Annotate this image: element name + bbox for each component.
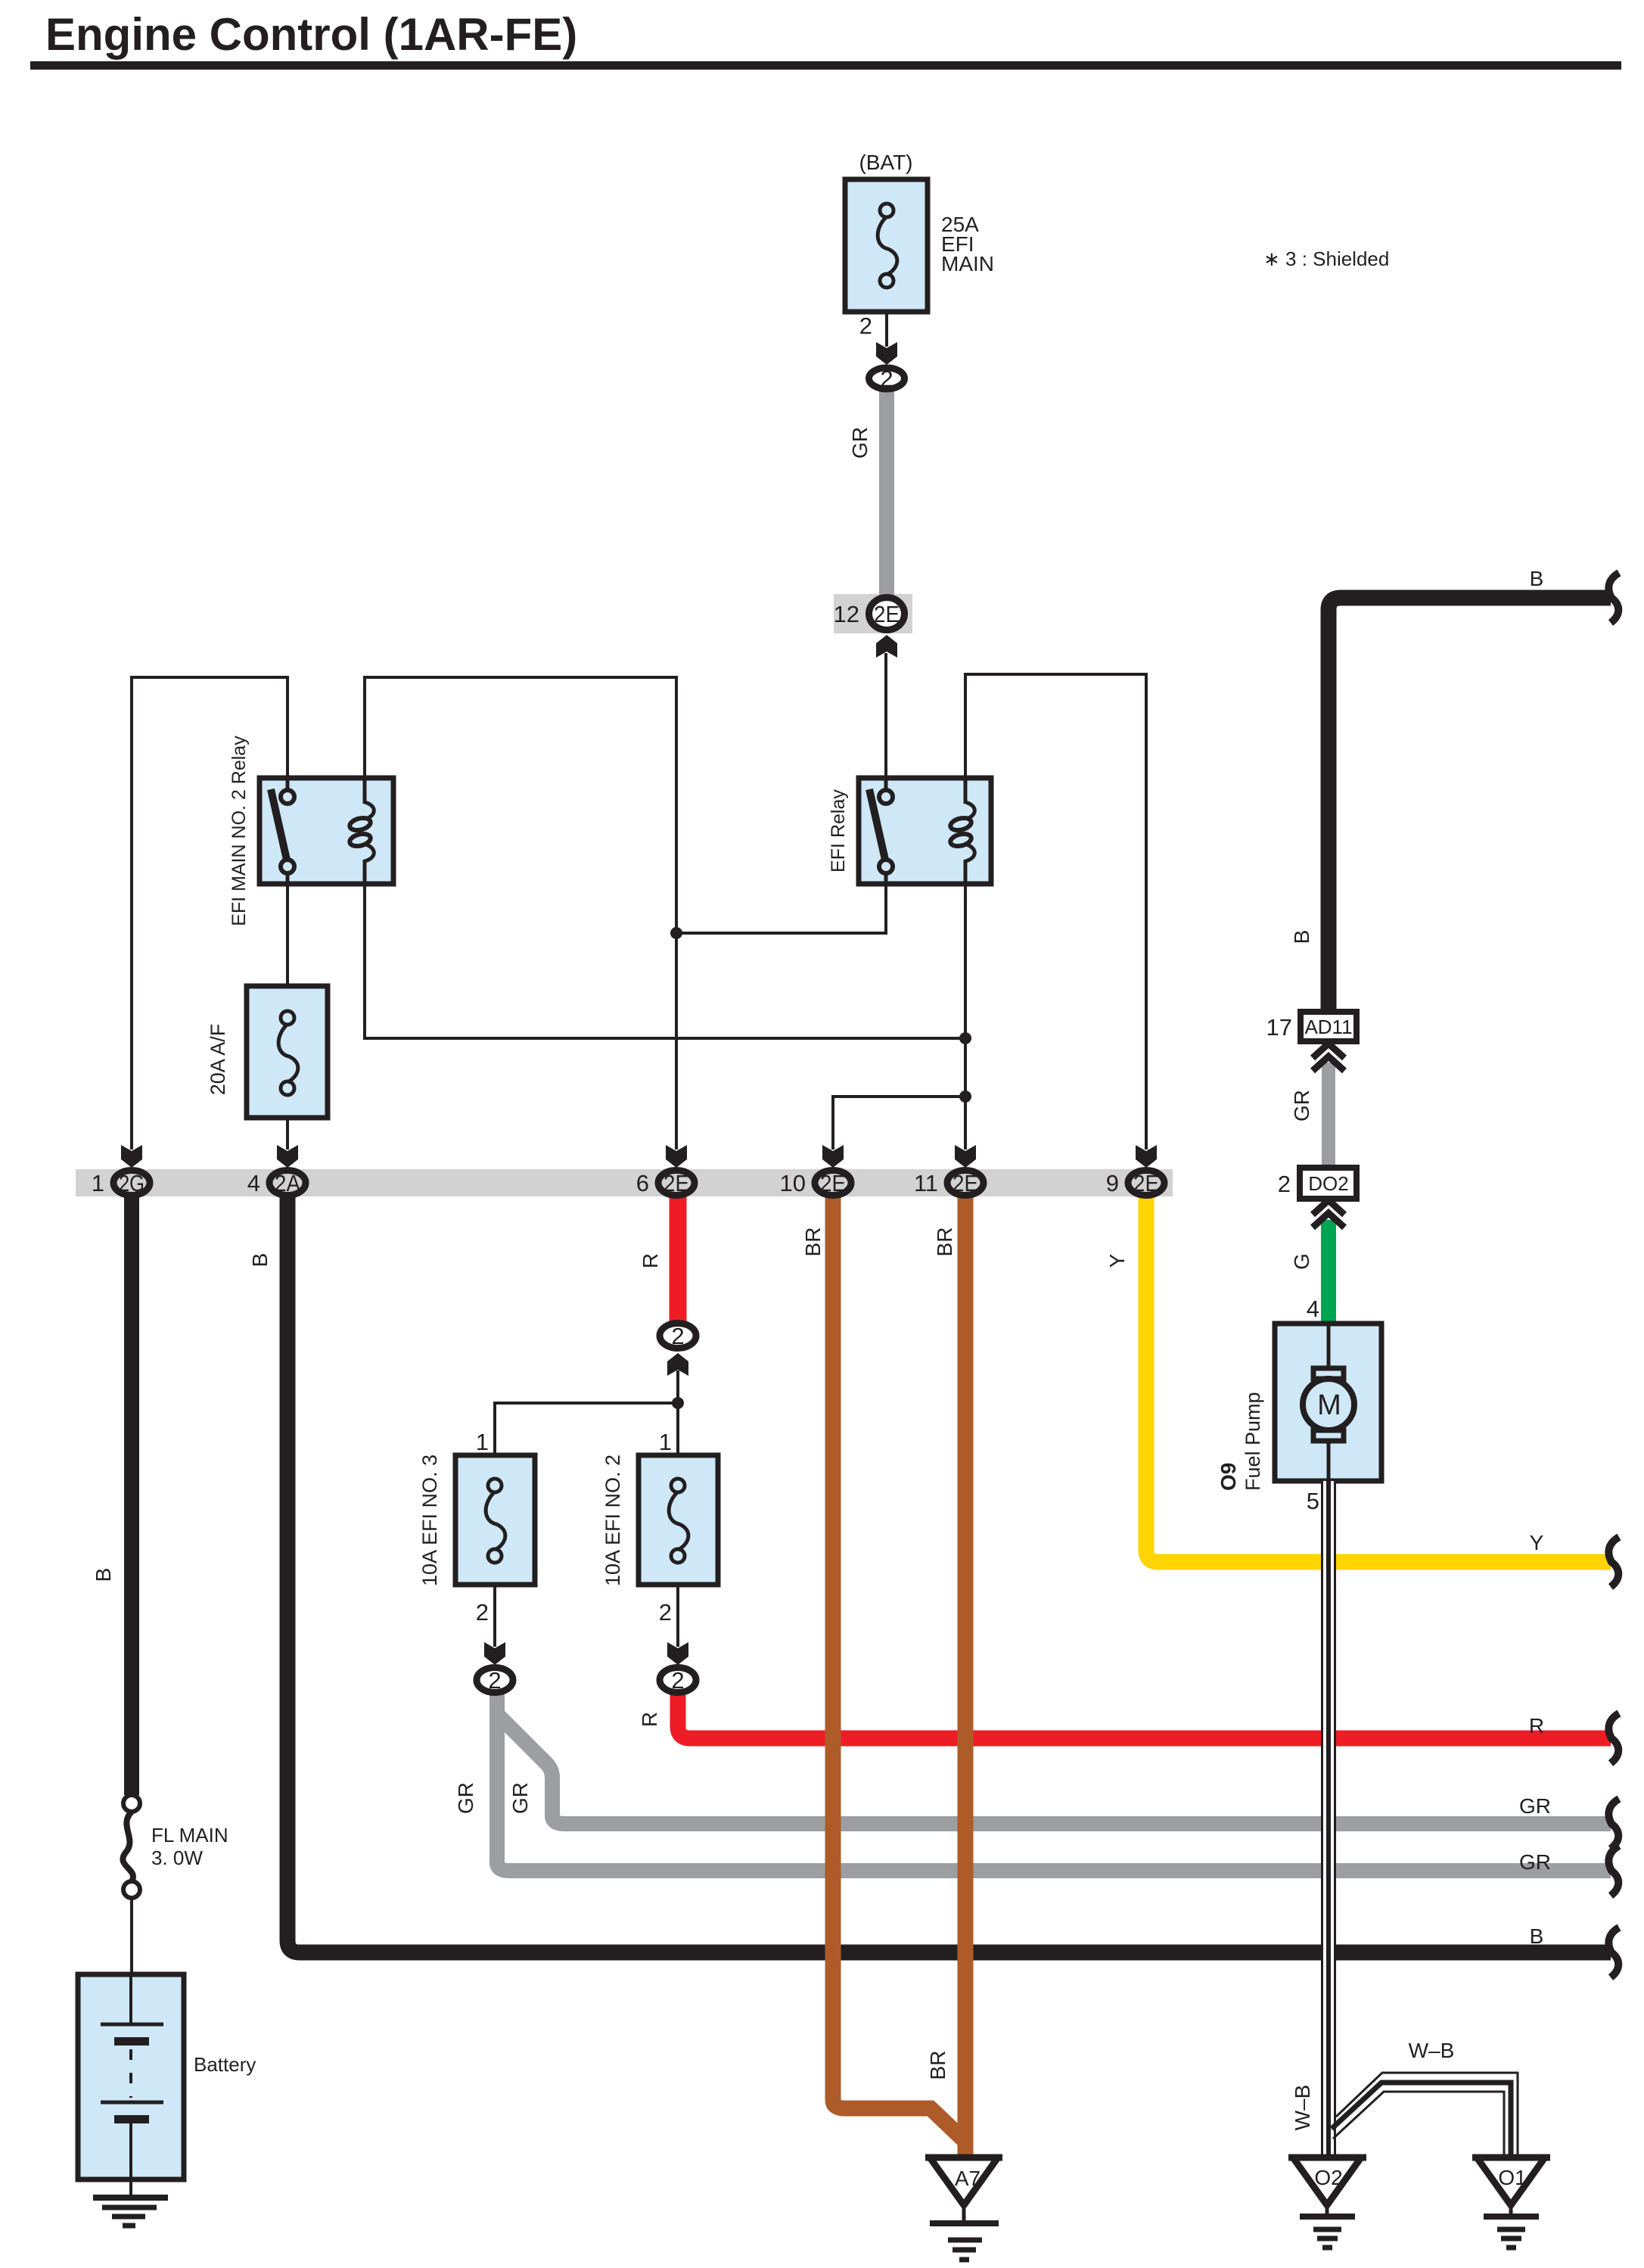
junction (10 2E branch): [959, 1090, 971, 1103]
wire GR (EFI NO.3 fuse output, lower run to frame break): [497, 1694, 1611, 1871]
wire GR (EFI NO.3 fuse output, upper branch to frame break): [497, 1714, 1611, 1824]
svg-text:BR: BR: [801, 1227, 825, 1257]
connector 11 2E: [947, 1170, 984, 1196]
connector 2 DO2: [1300, 1168, 1357, 1199]
frame break (GR lower): [1608, 1846, 1619, 1896]
svg-text:2G: 2G: [119, 1170, 145, 1196]
svg-text:AD11: AD11: [1304, 1016, 1352, 1038]
frame break (B bottom): [1608, 1927, 1619, 1977]
ground (battery): [93, 2179, 168, 2226]
fuse 20A A/F: [247, 986, 328, 1118]
svg-text:2: 2: [859, 313, 872, 339]
ground O1: [1472, 2158, 1550, 2248]
fuse 25A EFI MAIN: [845, 179, 928, 312]
svg-text:17: 17: [1266, 1014, 1292, 1041]
svg-text:R: R: [639, 1253, 662, 1268]
svg-text:G: G: [1290, 1253, 1313, 1270]
svg-text:2: 2: [880, 366, 893, 392]
svg-text:12: 12: [834, 601, 859, 627]
svg-text:EFI Relay: EFI Relay: [828, 789, 849, 873]
wire W-B (branch to ground O1): [1332, 2073, 1518, 2158]
wire (EFI relay coil top to 9 2E riser): [965, 674, 1146, 1150]
svg-text:2E: 2E: [820, 1170, 846, 1196]
svg-text:5: 5: [1307, 1488, 1319, 1514]
arrow into 1 2G: [121, 1145, 142, 1168]
wire (EFI relay switch bottom to 6 2E riser): [676, 882, 886, 933]
wire (1 2G riser to EFI MAIN NO.2 relay switch, top left loop): [132, 677, 287, 1150]
connector 1 2G: [113, 1170, 150, 1196]
arrow up into connector 2: [667, 1353, 688, 1376]
svg-text:O2: O2: [1314, 2166, 1342, 2189]
svg-text:GR: GR: [454, 1782, 477, 1814]
svg-text:10A EFI NO. 2: 10A EFI NO. 2: [601, 1454, 624, 1586]
junction (6 2E riser / EFI relay switch): [670, 927, 682, 939]
wire (EFI MAIN NO.2 relay coil bottom to EFI relay coil wire): [365, 882, 965, 1038]
connector 6 2E: [658, 1170, 695, 1196]
connector 17 AD11: [1301, 1012, 1357, 1041]
svg-text:Y: Y: [1530, 1531, 1544, 1554]
arrow into 4 2A: [277, 1145, 298, 1168]
connector 12 2E: [869, 598, 905, 630]
svg-text:2A: 2A: [275, 1170, 300, 1196]
connector 4 2A: [269, 1170, 306, 1196]
svg-text:4: 4: [1307, 1296, 1319, 1322]
svg-text:B: B: [248, 1253, 272, 1268]
svg-text:BR: BR: [926, 2051, 949, 2080]
svg-text:2: 2: [476, 1599, 489, 1626]
ground O2: [1288, 2158, 1366, 2248]
svg-text:2E: 2E: [664, 1170, 689, 1196]
svg-text:9: 9: [1106, 1170, 1119, 1196]
connector 2 (25A fuse output): [869, 366, 905, 392]
fusible link FL MAIN 3.0W: [123, 1795, 140, 1898]
arrow up into 12 2E: [876, 635, 897, 658]
arrow into NO.2 output connector: [667, 1642, 688, 1665]
svg-text:W–B: W–B: [1291, 2085, 1314, 2131]
svg-text:1: 1: [659, 1429, 672, 1455]
svg-text:Y: Y: [1105, 1253, 1129, 1268]
svg-text:2: 2: [659, 1599, 672, 1626]
svg-text:2E: 2E: [874, 601, 900, 627]
svg-text:W–B: W–B: [1409, 2039, 1455, 2062]
svg-text:20A A/F: 20A A/F: [207, 1024, 229, 1096]
svg-text:Engine Control (1AR-FE): Engine Control (1AR-FE): [45, 9, 577, 60]
connector 12 2E highlight: [834, 594, 912, 633]
svg-text:GR: GR: [508, 1782, 532, 1814]
svg-text:Fuel Pump: Fuel Pump: [1242, 1392, 1264, 1491]
fuse 10A EFI NO. 2: [639, 1455, 718, 1585]
fuse 10A EFI NO. 3: [455, 1455, 535, 1585]
svg-text:2: 2: [671, 1667, 684, 1694]
wire (connector 2 to EFI fuses 1-pins): [676, 1370, 679, 1457]
svg-text:MAIN: MAIN: [941, 252, 994, 275]
wire B (4 2A down and right to frame break): [287, 1197, 1611, 1952]
wire GR (AD11 to DO2): [1322, 1062, 1335, 1170]
svg-text:B: B: [1290, 930, 1313, 944]
svg-text:6: 6: [636, 1170, 649, 1196]
wire W-B (fuel pump pin 5 to ground O2): [1321, 1481, 1336, 2158]
svg-text:4: 4: [247, 1170, 260, 1196]
frame break (R): [1608, 1713, 1619, 1763]
frame break (Y): [1608, 1537, 1619, 1587]
wire B (EFI relay pin to AD11 and right to frame break), black heavy: [1329, 598, 1611, 1012]
svg-text:A7: A7: [955, 2167, 980, 2190]
svg-text:2: 2: [671, 1323, 684, 1349]
svg-text:1: 1: [92, 1170, 104, 1196]
svg-text:R: R: [1529, 1714, 1544, 1738]
svg-text:GR: GR: [848, 427, 872, 459]
wire (10A EFI NO.2 fuse pin 2 to connector): [676, 1583, 679, 1647]
fuel pump O9: [1275, 1324, 1381, 1481]
frame break (GR upper): [1608, 1799, 1619, 1849]
wire BR (11 2E down to ground A7): [958, 1197, 974, 2157]
svg-text:2E: 2E: [953, 1170, 978, 1196]
connector 9 2E: [1128, 1170, 1164, 1196]
wire (EFI MAIN NO.2 relay switch to 20A A/F fuse): [286, 882, 289, 988]
connector 2 (EFI NO.2 output): [660, 1667, 696, 1694]
svg-text:EFI MAIN NO. 2 Relay: EFI MAIN NO. 2 Relay: [228, 736, 250, 926]
svg-text:GR: GR: [1519, 1794, 1551, 1818]
svg-text:DO2: DO2: [1308, 1172, 1348, 1195]
wire (EFI relay coil bottom to 11 2E): [964, 882, 967, 1150]
frame break (B top): [1608, 573, 1619, 623]
arrow into 10 2E: [822, 1145, 844, 1168]
arrow into 11 2E: [955, 1145, 976, 1168]
connector 10 2E: [815, 1170, 851, 1196]
svg-text:10: 10: [780, 1170, 806, 1196]
svg-text:B: B: [92, 1568, 115, 1582]
junction (fuse feed split): [672, 1397, 684, 1409]
connector 2 (EFI NO.3 output): [477, 1667, 513, 1694]
relay EFI Relay: [859, 778, 991, 884]
wire (10A EFI NO.3 fuse pin 2 to connector): [493, 1583, 496, 1647]
svg-text:(BAT): (BAT): [859, 151, 912, 174]
wire B (battery to 1 2G), black heavy: [124, 1197, 139, 1795]
svg-text:M: M: [1317, 1389, 1341, 1421]
wire (12 2E to EFI relay switch top): [884, 653, 887, 779]
svg-text:GR: GR: [1290, 1090, 1313, 1122]
wire (EFI MAIN NO.2 relay coil top to 6 2E riser): [365, 677, 676, 1150]
ECM connector bus bar (gray band): [76, 1169, 1173, 1196]
arrow into connector 2: [876, 342, 897, 365]
wire R (EFI NO.2 fuse output down and right to frame break): [678, 1694, 1611, 1738]
wire Y (9 2E down and right to frame break): [1146, 1197, 1611, 1562]
svg-text:BR: BR: [933, 1227, 956, 1257]
svg-text:2E: 2E: [1133, 1170, 1159, 1196]
svg-text:R: R: [638, 1712, 661, 1727]
battery: [78, 1974, 184, 2179]
wire (20A A/F fuse to 4 2A): [286, 1116, 289, 1150]
connector 2 (red wire to fuses): [660, 1323, 696, 1349]
wire (FL MAIN to battery): [130, 1898, 133, 1976]
svg-text:10A EFI NO. 3: 10A EFI NO. 3: [418, 1454, 441, 1586]
svg-text:11: 11: [914, 1170, 938, 1196]
svg-text:Battery: Battery: [194, 2053, 256, 2076]
wire (11 2E riser branch to 10 2E): [833, 1097, 965, 1150]
wire G (DO2 to fuel pump pin 4): [1321, 1220, 1336, 1326]
arrow into 9 2E: [1136, 1145, 1157, 1168]
wire (branch to 10A EFI NO.3 fuse pin 1): [495, 1403, 678, 1457]
ground A7: [925, 2158, 1002, 2260]
svg-text:2: 2: [488, 1667, 501, 1694]
svg-text:1: 1: [476, 1429, 489, 1455]
svg-text:B: B: [1530, 567, 1544, 590]
svg-text:FL MAIN: FL MAIN: [151, 1824, 228, 1846]
wire GR (25A fuse to 12 2E): [879, 389, 894, 598]
svg-text:2: 2: [1278, 1171, 1291, 1197]
svg-text:GR: GR: [1519, 1850, 1551, 1874]
wire R (6 2E to connector 2): [670, 1197, 687, 1321]
svg-text:O9: O9: [1217, 1463, 1240, 1491]
svg-text:B: B: [1530, 1924, 1544, 1948]
svg-text:∗ 3 : Shielded: ∗ 3 : Shielded: [1263, 247, 1389, 270]
male connector chevrons (DO2): [1313, 1200, 1344, 1227]
wire (25A EFI MAIN fuse to connector 2): [885, 312, 888, 347]
arrow into 6 2E: [666, 1145, 687, 1168]
junction (coil bottoms common): [959, 1032, 971, 1044]
svg-text:O1: O1: [1498, 2166, 1526, 2189]
relay EFI MAIN NO. 2 Relay: [259, 778, 393, 884]
wire BR (10 2E down to junction with 11 2E wire): [833, 1197, 964, 2140]
arrow into NO.3 output connector: [484, 1642, 505, 1665]
male connector chevrons (AD11): [1313, 1044, 1344, 1071]
svg-text:3. 0W: 3. 0W: [151, 1846, 203, 1869]
